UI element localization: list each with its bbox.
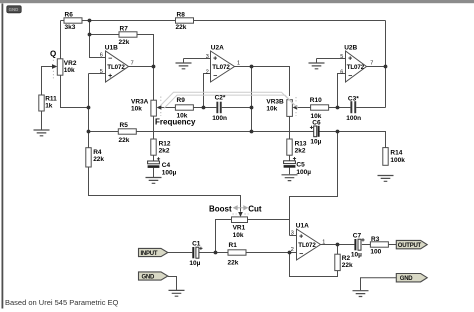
resistor R13 — [287, 139, 307, 155]
svg-text:22k: 22k — [119, 39, 130, 46]
wire U2A output to VR3B top — [235, 67, 290, 97]
node U1B output junction — [152, 65, 156, 69]
svg-text:22k: 22k — [342, 262, 353, 269]
resistor R11 — [39, 95, 57, 111]
wire R7 right down to U1B output node — [137, 35, 154, 67]
INPUT tag — [139, 248, 168, 257]
capacitor C6 (10u electrolytic) — [310, 119, 322, 145]
svg-text:Cut: Cut — [248, 205, 262, 214]
svg-text:100n: 100n — [346, 115, 361, 122]
node U1B + input junction — [87, 106, 91, 110]
resistor R8 — [176, 11, 194, 31]
svg-text:R12: R12 — [159, 140, 171, 147]
svg-text:100n: 100n — [212, 115, 227, 122]
resistor R5 — [118, 122, 136, 144]
svg-text:10k: 10k — [233, 232, 244, 239]
page left border line — [2, 4, 4, 309]
ground below C4 — [146, 178, 162, 184]
svg-text:Based on Urei 545 Parametric E: Based on Urei 545 Parametric EQ — [5, 298, 119, 307]
svg-text:TL072: TL072 — [107, 64, 125, 71]
svg-text:R13: R13 — [295, 140, 307, 147]
wire C7 to R3 — [362, 244, 371, 246]
wire R1 to U1A pin 2 — [246, 252, 297, 254]
svg-text:VR1: VR1 — [233, 225, 246, 232]
wire top rail R6 right to R8 left — [82, 20, 176, 22]
svg-text:GND: GND — [142, 275, 156, 281]
svg-text:+: + — [213, 55, 217, 62]
svg-text:Q: Q — [50, 49, 56, 58]
svg-text:Boost: Boost — [209, 205, 232, 214]
svg-text:TL072: TL072 — [212, 64, 230, 71]
capacitor C4 (100u electrolytic) — [148, 157, 177, 176]
wire VR1 right terminal to U1A pin3 column — [248, 219, 290, 221]
resistor R9 — [175, 97, 193, 120]
wire node B down to U1A pin 3 path — [290, 132, 338, 236]
svg-text:R9: R9 — [177, 97, 186, 104]
wire U1B pin 5 — [89, 73, 106, 75]
ground below C5 — [282, 175, 298, 181]
ground below R14 — [378, 176, 394, 182]
svg-text:−: − — [213, 73, 217, 80]
wire C1 to R1 — [199, 252, 228, 254]
wire C3 right to U2B output column — [356, 107, 385, 109]
wire node B to R14 — [338, 132, 386, 148]
svg-text:10k: 10k — [64, 67, 75, 74]
wire C2 right to U2A output vertical — [222, 107, 252, 109]
potentiometer VR1 (boost/cut) — [232, 212, 249, 239]
wire VR3B wiper to R10 — [297, 107, 310, 109]
svg-text:3: 3 — [206, 54, 209, 60]
svg-text:C6: C6 — [312, 119, 321, 126]
svg-text:7: 7 — [131, 61, 134, 67]
wire right column vertical (R8 rail down to U2B output and C3) — [385, 21, 387, 108]
node C1/R1/VR1-left junction — [214, 251, 218, 255]
op-amp U1A — [291, 222, 326, 260]
node lower rail junction — [250, 130, 254, 134]
svg-text:R3: R3 — [371, 236, 380, 243]
svg-text:10µ: 10µ — [310, 139, 321, 146]
svg-text:22k: 22k — [228, 259, 239, 266]
capacitor C1 (10u electrolytic) — [189, 241, 202, 268]
wire top rail R8 right to right column — [194, 20, 386, 22]
resistor R6 — [64, 11, 82, 31]
resistor R14 — [383, 148, 405, 166]
svg-text:1: 1 — [237, 61, 240, 67]
svg-text:2k2: 2k2 — [159, 148, 170, 155]
capacitor C3 (100n) — [346, 95, 361, 122]
svg-text:R7: R7 — [120, 25, 129, 32]
wire R2 top to output — [337, 245, 339, 255]
wire R11 bottom to ground — [41, 111, 43, 130]
wire U1A pin 3 — [290, 235, 297, 237]
svg-text:6: 6 — [100, 53, 103, 59]
svg-text:R1: R1 — [229, 242, 238, 249]
svg-text:100µ: 100µ — [296, 169, 311, 176]
svg-text:5: 5 — [100, 69, 103, 75]
svg-text:OUTPUT: OUTPUT — [398, 243, 422, 249]
svg-text:R4: R4 — [93, 149, 102, 156]
svg-text:10k: 10k — [266, 106, 277, 113]
svg-text:3k3: 3k3 — [65, 24, 76, 31]
svg-text:+: + — [299, 233, 303, 240]
node U1A output/R2 junction — [336, 243, 340, 247]
svg-text:10µ: 10µ — [351, 252, 362, 259]
svg-text:VR3A: VR3A — [131, 99, 149, 106]
svg-text:2: 2 — [206, 69, 209, 75]
node R7 left junction — [88, 33, 92, 37]
svg-text:7: 7 — [370, 61, 373, 67]
svg-text:100k: 100k — [390, 157, 405, 164]
svg-text:TL072: TL072 — [298, 242, 316, 249]
wire U2B output — [366, 66, 386, 68]
wire R4 bottom to VR1 wiper — [89, 167, 241, 212]
wire VR1 left terminal to input node — [216, 220, 232, 253]
ground at U2B pin 5 — [309, 63, 325, 69]
wire U2B pin 6 down to mid node — [338, 74, 346, 108]
svg-text:22k: 22k — [176, 24, 187, 31]
op-amp U2A — [206, 44, 240, 82]
node C2/U2A output junction — [250, 106, 254, 110]
svg-text:C5: C5 — [296, 162, 305, 169]
wire U2A pin 3 from ground — [184, 59, 212, 63]
wire R13 to C5 — [289, 155, 291, 161]
svg-text:TL072: TL072 — [347, 64, 365, 71]
wire U2A output vertical down to lower rail — [251, 67, 253, 132]
resistor R2 — [335, 254, 353, 270]
wire U1B output node down to VR3A top — [153, 67, 155, 101]
wire VR2 wiper to R11 — [42, 67, 53, 96]
potentiometer VR2 (Q) — [52, 59, 77, 79]
wire U2B pin 5 from ground — [317, 59, 346, 63]
svg-text:Frequency: Frequency — [155, 118, 196, 127]
op-amp U1B — [100, 44, 134, 82]
node R10/C3/U2B pin6 junction — [336, 106, 340, 110]
resistor R3 — [370, 236, 388, 255]
wire lower rail R5 to C6 (crosses VR3A and VR3B stems) — [136, 131, 314, 133]
wire GND flag left to ground — [168, 277, 177, 291]
node A (R6/R8 junction) — [88, 19, 92, 23]
node U1A pin2 feedback junction — [288, 251, 292, 255]
wire U1B output — [129, 66, 154, 68]
svg-text:R8: R8 — [177, 11, 186, 18]
svg-text:100µ: 100µ — [162, 169, 177, 176]
svg-text:3: 3 — [291, 231, 294, 237]
node U2A output junction — [250, 65, 254, 69]
svg-text:+: + — [348, 55, 352, 62]
svg-text:6: 6 — [340, 69, 343, 75]
ground at U2A pin 3 — [176, 63, 192, 69]
capacitor C7 (10u electrolytic) — [351, 232, 365, 258]
svg-text:GND: GND — [9, 7, 19, 12]
svg-text:2k2: 2k2 — [295, 148, 306, 155]
svg-text:2: 2 — [291, 247, 294, 253]
wire VR3A bottom stem to R12 (crossing rail) — [153, 116, 155, 140]
wire R12 to C4 — [153, 155, 155, 161]
wire U2A pin 2 down to mid rail — [204, 74, 211, 108]
GND tag (left) — [139, 272, 168, 281]
svg-text:R2: R2 — [342, 255, 351, 262]
GND badge (dark tag, top-left) — [7, 6, 21, 13]
wire VR3A wiper to R9 — [162, 107, 176, 109]
GND tag (right) — [396, 274, 427, 283]
ground below R11 — [34, 130, 50, 136]
svg-text:−: − — [348, 73, 352, 80]
wire lower rail left (U1B + node to R5) — [89, 131, 119, 133]
wire U1B + input vertical down to R4 — [88, 74, 90, 148]
wire C5 to ground — [289, 168, 291, 175]
wire R7 left — [90, 34, 120, 36]
svg-text:C7: C7 — [353, 232, 362, 239]
svg-text:+: + — [108, 73, 112, 80]
svg-text:U2A: U2A — [211, 44, 224, 51]
wire GND flag right to ground — [361, 278, 397, 291]
resistor R1 — [228, 242, 247, 266]
capacitor C2 (100n) — [212, 94, 227, 122]
wire R3 to OUTPUT flag — [388, 244, 397, 246]
svg-text:100: 100 — [370, 249, 381, 256]
ground below left GND tag — [169, 290, 185, 296]
svg-text:U2B: U2B — [344, 44, 357, 51]
wire R10 right to C3 — [328, 107, 350, 109]
svg-text:−: − — [108, 55, 112, 62]
svg-text:U1B: U1B — [105, 44, 118, 51]
svg-text:1: 1 — [322, 239, 325, 245]
svg-text:5: 5 — [340, 54, 343, 60]
op-amp U2B — [340, 44, 373, 82]
wire R6 left to VR2 top vertical — [61, 21, 65, 59]
svg-text:C2*: C2* — [215, 94, 226, 101]
resistor R10 — [310, 97, 329, 120]
svg-text:C1: C1 — [192, 241, 201, 248]
potentiometer VR3A (frequency) — [131, 97, 161, 117]
svg-text:INPUT: INPUT — [141, 251, 158, 257]
svg-text:R10: R10 — [310, 97, 322, 104]
svg-text:R5: R5 — [120, 122, 129, 129]
wire VR2 bottom to U1B + node — [61, 75, 89, 108]
wire VR3B bottom stem to R13 (crossing rail) — [289, 116, 291, 139]
capacitor C5 (100u electrolytic) — [284, 157, 312, 176]
node B (C6/R14/U1A+ junction) — [336, 130, 340, 134]
svg-text:VR3B: VR3B — [266, 99, 284, 106]
wire C4 to ground — [153, 168, 155, 177]
svg-text:10µ: 10µ — [189, 260, 200, 267]
node R5/R4 junction — [87, 130, 91, 134]
svg-text:−: − — [299, 251, 303, 258]
boost/cut direction arrow — [234, 206, 248, 210]
wire R9 right to C2 — [193, 107, 216, 109]
potentiometer VR3B (frequency) — [266, 97, 297, 116]
resistor R4 — [86, 148, 105, 167]
svg-text:22k: 22k — [93, 156, 104, 163]
ground below right GND tag — [353, 291, 369, 297]
svg-text:U1A: U1A — [296, 222, 309, 229]
svg-text:C4: C4 — [162, 162, 171, 169]
svg-text:R14: R14 — [390, 150, 402, 157]
svg-text:VR2: VR2 — [64, 60, 77, 67]
node R9/C2/U2A pin2 junction — [202, 106, 206, 110]
svg-text:10k: 10k — [131, 106, 142, 113]
node U2B output junction — [384, 65, 388, 69]
svg-text:C3*: C3* — [348, 95, 359, 102]
wire feedback: pin2 node down, right, up to R2 bottom — [290, 253, 338, 277]
resistor R7 — [119, 25, 138, 46]
svg-text:22k: 22k — [119, 137, 130, 144]
svg-text:GND: GND — [400, 276, 414, 282]
wire node A vertical to U1B pin 6 — [90, 21, 106, 58]
page top border band — [0, 0, 474, 3]
wire lower rail C6 right to node B — [320, 131, 338, 133]
wire U1A output to C7 — [321, 244, 355, 246]
gang link band VR3A-VR3B — [161, 92, 298, 108]
OUTPUT tag — [396, 240, 427, 249]
svg-text:1k: 1k — [45, 103, 53, 110]
svg-text:R6: R6 — [65, 11, 74, 18]
wire INPUT flag to C1 — [168, 252, 193, 254]
resistor R12 — [151, 139, 171, 155]
